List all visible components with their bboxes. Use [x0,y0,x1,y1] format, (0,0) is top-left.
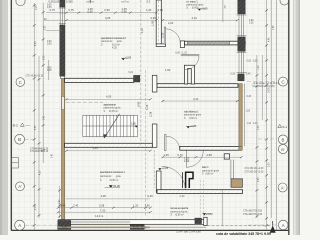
left wall lower (new tan) [62,79,65,220]
svg-text:1,95: 1,95 [150,20,154,26]
svg-text:0,3: 0,3 [147,0,151,4]
bottom wall end cap [204,217,207,225]
svg-text:A': A' [281,185,285,190]
svg-text:baie 1: baie 1 [202,167,209,169]
stairs direction arrow [104,114,120,139]
svg-text:patrimoniul grote: patrimoniul grote [104,107,122,110]
room label casa scarii (above stairs) [104,103,122,112]
right front wall (new tan) below C [239,84,242,147]
svg-text:1,30: 1,30 [247,123,252,125]
frame inner right thin line [293,0,295,235]
bottom wall dark pier middle [130,225,144,230]
svg-text:0,12: 0,12 [141,226,147,230]
svg-text:B: B [282,137,285,142]
mid dimension line right (4,10) [162,100,237,102]
svg-text:2,38: 2,38 [148,111,152,117]
svg-text:0,30: 0,30 [258,125,260,130]
svg-text:nr. mass 1: nr. mass 1 [186,1,198,3]
svg-text:S 0,80 m²: S 0,80 m² [202,173,213,176]
svg-text:2,40: 2,40 [59,199,61,204]
svg-text:2,10: 2,10 [35,205,37,210]
svg-text:4,40: 4,40 [268,37,270,42]
svg-text:2,30: 2,30 [268,162,270,167]
svg-text:4,60: 4,60 [35,41,37,46]
elevation marker +2,80 terrace [202,212,213,216]
svg-text:6,21: 6,21 [128,71,133,74]
svg-text:0,35: 0,35 [47,70,52,72]
svg-text:14,0 m: 14,0 m [95,214,104,218]
svg-text:4,10: 4,10 [193,97,199,101]
elevation marker +2,85 mid [186,124,197,128]
north/section triangle bottom right (filled) [270,221,276,233]
grid bubble top-right (cut) [280,0,289,5]
room label sala fabrica (mid-right room) [184,111,202,119]
right column rotated dim texts [225,4,275,182]
svg-text:0,90: 0,90 [122,10,128,14]
svg-text:patrimoniul grote: patrimoniul grote [100,175,122,178]
grid bubble B right [278,135,287,144]
svg-text:S-1: S-1 [282,125,287,129]
C wall left part [65,78,134,82]
elevation marker near stairs +2,85 [131,123,138,128]
svg-text:2,40: 2,40 [73,204,79,208]
stairwell east wall lower [152,124,157,147]
elevation marker +2,85 lower-left of sala [158,166,169,170]
svg-text:CTN449/HB+2,30: CTN449/HB+2,30 [30,151,49,153]
top-right room dimension line [162,19,237,21]
svg-text:4,25: 4,25 [112,46,117,49]
elevation marker +-0,00 bottom-left room [105,184,121,188]
svg-text:1,10: 1,10 [184,159,190,163]
svg-text:2,08: 2,08 [99,204,105,208]
dashed vertical reference line x145.6 [145,70,147,217]
svg-text:+2,80: +2,80 [206,212,213,216]
svg-text:S 41,35 m²: S 41,35 m² [100,179,118,182]
door top-center arc [166,29,181,44]
svg-text:0,90: 0,90 [88,10,94,14]
svg-text:0,05: 0,05 [247,61,252,63]
svg-text:4,10: 4,10 [192,16,198,20]
svg-text:0,45: 0,45 [247,96,252,98]
ticks for top rows [65,12,158,22]
top right room bottom wall [185,41,246,45]
svg-text:0,90: 0,90 [137,101,141,107]
svg-text:8,85: 8,85 [35,125,37,130]
grid bubble C left [16,78,25,87]
CTA texts right mid [245,167,265,173]
top tick line at x90 [89,0,91,3]
svg-text:-0,07: -0,07 [61,225,68,229]
window 2 in right wall [237,51,247,74]
svg-text:apartament: apartament [104,103,117,106]
bottom wall double line [58,220,207,225]
svg-text:patrimoniul grote: patrimoniul grote [186,3,204,6]
window in left wall [59,7,66,25]
top-left room dimension row 1 [44,13,156,31]
svg-text:2,85: 2,85 [131,123,136,126]
terrace bottom dashed property line [207,225,270,227]
svg-text:terasa acoperita: terasa acoperita [171,207,189,210]
svg-text:1,39: 1,39 [258,65,260,70]
svg-text:+2,90 si/sau (rel ±0,00 m): +2,90 si/sau (rel ±0,00 m) [253,82,279,85]
dark end block of C wall [134,75,140,82]
door top-right head lines [181,55,199,56]
tick marks on right dimension lines [256,9,269,226]
svg-text:S 61,9 m²: S 61,9 m² [101,44,120,47]
small interior stair fixture [186,172,193,188]
svg-text:0,70: 0,70 [178,153,184,157]
door at terrace wall arc [162,166,186,190]
svg-text:m/ l m: m/ l m [87,0,95,4]
svg-text:CTA 360 1D +2,30: CTA 360 1D +2,30 [245,170,265,173]
door top-right arc [185,56,199,70]
bottom wall dark pier left [58,220,71,229]
svg-text:patrimoniul grote: patrimoniul grote [171,210,189,213]
svg-text:patrimoniul grote: patrimoniul grote [202,169,220,172]
svg-text:S +2,85 m²: S +2,85 m² [171,214,184,217]
small box column right of sala [224,154,229,159]
svg-text:S 12,05 m²: S 12,05 m² [104,110,119,113]
terrace east thin wall [231,160,234,179]
svg-text:0,25: 0,25 [151,16,157,20]
dashed line entry vestibule [154,150,156,188]
section mark S-1 right [278,124,288,129]
svg-text:0,365: 0,365 [66,0,73,4]
dashed axis at right B [258,138,277,140]
grid bubble A' right [278,183,287,192]
svg-text:0,46: 0,46 [148,194,154,198]
svg-text:4,05: 4,05 [106,95,112,99]
mid dim texts [93,68,199,150]
svg-text:S 8,60 m²: S 8,60 m² [184,117,197,120]
stairs block [83,115,138,136]
top-center door texts [140,21,174,33]
C wall right part [157,84,238,88]
window 1 in right wall [237,14,247,37]
dashed axis at right A [248,224,278,226]
svg-text:S (0,45)²: S (0,45)² [186,7,198,10]
svg-text:patrimoniul grote: patrimoniul grote [101,40,123,43]
room label baie (sala1) [202,167,220,175]
svg-text:A': A' [18,184,22,189]
svg-text:4,05: 4,05 [105,16,111,20]
wall below stairs [65,143,153,147]
svg-text:3,41: 3,41 [44,115,46,120]
svg-text:0,35: 0,35 [47,44,52,46]
svg-text:CTA+380 TD+2,90: CTA+380 TD+2,90 [243,210,263,213]
svg-text:1,60: 1,60 [165,68,171,72]
dim line under stairs wall (4,40) [66,150,150,152]
svg-text:1,20: 1,20 [133,204,139,208]
right exterior wall upper (existing dark) [238,0,245,81]
svg-text:1,05: 1,05 [246,110,251,112]
left column small horiz texts [26,4,53,77]
grid bubble B' right [278,144,287,153]
grid bubble A left [15,220,25,230]
svg-text:0,45: 0,45 [246,74,251,76]
svg-text:2,20: 2,20 [168,21,174,25]
corner turn of tan wall at sala SE [239,146,242,150]
sala south wall [180,146,241,150]
right scan margin [295,0,300,235]
svg-text:0,35: 0,35 [253,61,258,63]
svg-text:+2,85: +2,85 [190,124,197,128]
top dim texts row 0 [49,0,151,4]
svg-text:B: B [18,137,21,143]
dashed axis segment left of stair label [66,101,103,103]
svg-text:CTA+380 TD+2,90: CTA+380 TD+2,90 [243,213,263,216]
fold mark rectangle on left frame [11,158,18,169]
frame left border line [10,0,12,231]
grid bubble A' left [16,182,25,191]
svg-text:m/ l m: m/ l m [122,0,130,4]
svg-text:cota de valabilitate 345 78+1: cota de valabilitate 345 78+1 9.99 [216,232,271,235]
door to sala arc [166,136,180,150]
elevation marker +2,90 top-right [197,7,208,11]
svg-text:0,30: 0,30 [231,74,236,76]
rotated texts stairwell column [137,20,165,117]
vertical dimension line left A (x=34.2) [34,3,49,230]
sala dimension row [162,156,241,158]
vertical dim line left of bottom room [59,186,61,218]
svg-text:1,25: 1,25 [145,104,149,110]
svg-text:0,25: 0,25 [158,8,164,12]
svg-text:1,00: 1,00 [164,153,170,157]
wall x156 between sala and terasa [156,171,161,192]
left scan margin [0,0,8,235]
svg-text:0,12: 0,12 [253,123,258,125]
svg-text:4,20: 4,20 [40,170,42,175]
door jamb right of opening [180,41,184,48]
svg-text:0,35: 0,35 [47,7,52,9]
tick marks on left dimension lines [33,4,45,226]
svg-text:3,41: 3,41 [52,153,54,158]
door top-center leaf [164,27,165,44]
room label terasa acoperita [171,207,189,216]
frame bottom border line [11,229,289,231]
grid bubble B left [15,134,25,144]
svg-text:CTA 360 1D +2,30: CTA 360 1D +2,30 [245,167,265,170]
svg-text:1,10: 1,10 [140,28,144,34]
dashed axis at left B [25,138,34,140]
svg-text:2,35: 2,35 [258,177,260,182]
frame right border line [288,0,290,235]
svg-text:+2,85: +2,85 [125,56,132,60]
svg-text:1,40: 1,40 [145,204,151,208]
svg-text:apartament vanzarea 2: apartament vanzarea 2 [101,37,126,40]
bottom room dimension rows [58,199,151,212]
top dim texts row 1 [50,7,164,13]
section mark S-1 left [13,123,30,128]
svg-text:0,12: 0,12 [133,226,139,230]
terrace corner column [231,179,242,188]
svg-text:0,75: 0,75 [69,8,75,12]
top dim texts row 2 [105,16,197,20]
bottom room dim texts [60,194,201,234]
svg-text:2,30: 2,30 [249,23,254,25]
door to sala leaf [165,134,166,150]
mid dimension line left (4,05) [66,98,150,100]
tan strip under bottom wall right part [150,226,206,228]
stairwell east wall upper [152,75,157,92]
svg-text:+2,85: +2,85 [162,166,169,170]
svg-text:7,20: 7,20 [100,208,106,212]
bottom wall dark pier right [195,218,202,224]
terrace north wall [157,190,243,194]
svg-text:0,90 / 1,20: 0,90 / 1,20 [175,52,187,55]
sala interior door arc [186,150,203,167]
room label apartament 1 (bottom-left room) [100,171,125,182]
vertical dimension lines right column [222,0,276,230]
dashed vertical reference line x140.8 [140,0,142,148]
dashed vertical lines in terrace [199,180,201,218]
svg-text:CTN HL/NJ+2,35: CTN HL/NJ+2,35 [26,76,44,78]
svg-text:patrimoniul grote: patrimoniul grote [184,114,202,117]
svg-text:apartament vanzarea 1: apartament vanzarea 1 [100,171,125,174]
svg-text:0,40: 0,40 [60,204,66,208]
left exterior wall upper (existing dark) [60,0,65,79]
CTA texts right bottom [243,210,263,216]
tan strip under bottom wall [57,226,150,228]
svg-text:S-1: S-1 [13,124,18,128]
elevation marker +2,85 top-left room [121,56,132,61]
grid bubble C right [279,77,288,86]
top center wall (hollow) [156,0,165,47]
svg-text:0,90: 0,90 [105,8,111,12]
grid bubble top-left (cut) [16,0,25,6]
grid bubble A right [278,220,288,230]
svg-text:1,30: 1,30 [146,8,152,12]
svg-text:B': B' [281,147,285,152]
dashed axis line through A bubbles [25,224,57,226]
pillar below top-right door [184,65,194,84]
svg-text:2,20: 2,20 [161,32,165,38]
CTN texts left mid [30,148,49,153]
room label nr mass 1 (top-right room) [186,1,204,9]
svg-text:4,05: 4,05 [101,194,107,198]
svg-text:2,36: 2,36 [44,55,46,60]
dashed axis at right C [247,81,277,83]
svg-text:Usa 3,5d (rel H=2,20): Usa 3,5d (rel H=2,20) [253,85,275,88]
left column rotated dim texts [35,5,61,210]
svg-text:2,90: 2,90 [44,25,46,30]
svg-text:2,86: 2,86 [207,153,213,157]
svg-text:2,90: 2,90 [180,195,185,198]
room label apartament 2 (top-left room) [101,37,126,47]
svg-text:4,40: 4,40 [93,146,99,150]
svg-text:3,15: 3,15 [36,5,38,10]
svg-text:0,45: 0,45 [273,25,275,30]
svg-text:sala fabrica 1: sala fabrica 1 [184,111,199,113]
right column small horiz texts [231,20,259,125]
sala dim texts [164,153,213,163]
svg-text:0,06: 0,06 [54,0,60,4]
svg-text:CTA+ 380 CTA+3,80: CTA+ 380 CTA+3,80 [176,230,201,234]
